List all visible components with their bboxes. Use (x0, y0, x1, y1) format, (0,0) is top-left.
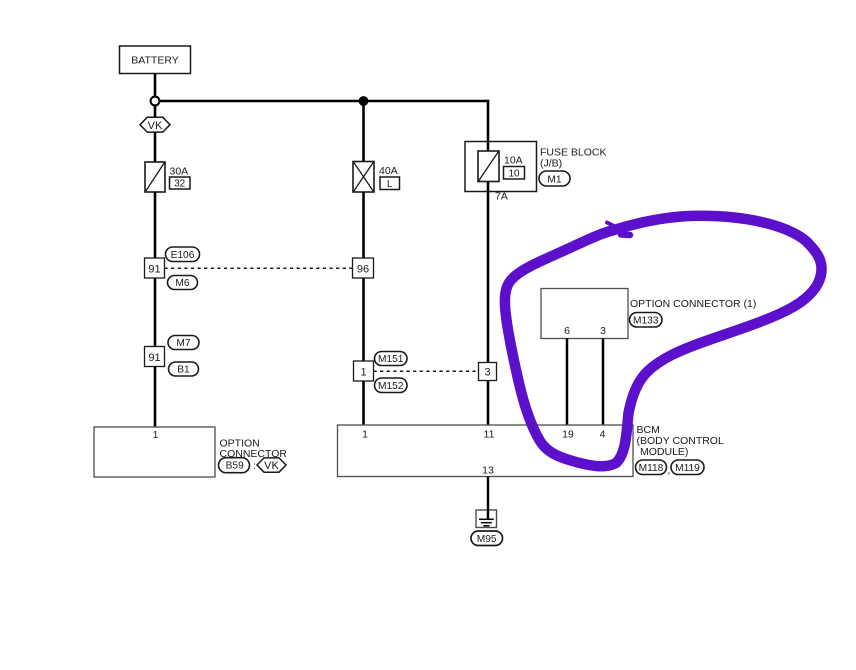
wire fuse30A to connector 91 (E106/M6) (154, 192, 157, 258)
label BCM (BODY CONTROL MODULE) (637, 424, 724, 458)
connector ref M119 (668, 460, 705, 477)
net flag VK (140, 117, 170, 132)
node open-circle junction (151, 97, 160, 106)
svg-text:19: 19 (562, 428, 574, 440)
connector ref M6 (168, 276, 198, 290)
fuse number box 32 (170, 177, 191, 190)
svg-text:E106: E106 (171, 250, 195, 261)
svg-text:M95: M95 (477, 534, 497, 545)
connector ref M7 (168, 336, 199, 350)
fuse block J/B outline (465, 142, 537, 192)
svg-text:4: 4 (600, 428, 606, 440)
svg-text:91: 91 (148, 263, 160, 275)
connector ref M95 (471, 531, 503, 546)
svg-text:11: 11 (484, 428, 495, 440)
svg-text:BATTERY: BATTERY (131, 55, 178, 67)
wire battery to junction (154, 74, 157, 97)
connector ref B59 (219, 458, 256, 473)
fusible link 40A (353, 162, 398, 193)
battery B1 (120, 46, 191, 74)
connector ref M1 (539, 171, 570, 186)
ground M95 (476, 509, 497, 528)
label FUSE BLOCK (J/B) (540, 147, 607, 170)
wire VK to fuse 30A (154, 132, 157, 162)
svg-text:B59: B59 (226, 461, 244, 472)
svg-text:1: 1 (360, 366, 366, 378)
svg-text:OPTION CONNECTOR (1): OPTION CONNECTOR (1) (630, 298, 756, 310)
wire 91 to option connector B59 (154, 367, 157, 428)
svg-text:VK: VK (148, 120, 163, 132)
wire BCM pin 13 to ground (487, 477, 489, 520)
connector pin box 91 (M7/B1) (145, 347, 165, 367)
wire 91 to 91 (M7/B1) (154, 278, 157, 347)
svg-text:96: 96 (357, 263, 369, 275)
BCM body control module box (338, 425, 634, 477)
net flag VK (bottom) (257, 458, 286, 472)
wire 40A to 96 (362, 192, 365, 258)
svg-text::: : (253, 461, 256, 472)
svg-text:30A: 30A (170, 166, 189, 178)
svg-text:M6: M6 (175, 278, 189, 289)
wire dashed link 91 to 96 (165, 267, 353, 269)
wire bus to fusible link 40A (362, 101, 365, 162)
svg-text:M133: M133 (633, 316, 659, 327)
svg-text:3: 3 (484, 367, 490, 379)
node solid junction dot (359, 96, 369, 106)
fuse 10A (478, 151, 523, 182)
connector ref E106 (166, 247, 200, 262)
wire horizontal bus (160, 100, 489, 103)
connector ref M118 (636, 460, 667, 475)
wire junction to VK flag (154, 105, 157, 118)
svg-text:32: 32 (174, 179, 186, 190)
svg-text:,: , (668, 466, 671, 477)
wire M133 pin 6 to BCM pin 19 (566, 339, 569, 426)
annotation purple highlight loop (505, 216, 822, 466)
wire 3 box to BCM pin 11 (487, 381, 490, 426)
connector ref B1 (169, 362, 199, 376)
connector pin box 3 (479, 363, 497, 381)
wire fuse block to 3 box (487, 192, 490, 363)
fuse number box L (380, 177, 400, 190)
wire pin1 box to BCM (362, 381, 365, 425)
wire through fuse block to fuse (487, 142, 490, 153)
svg-text:MODULE): MODULE) (640, 446, 688, 458)
svg-text:M152: M152 (378, 381, 404, 392)
svg-text:(J/B): (J/B) (540, 158, 562, 170)
wire bus corner down to fuse block (487, 100, 490, 142)
svg-text:M7: M7 (176, 338, 190, 349)
connector pin box 96 (353, 258, 374, 278)
svg-text:1: 1 (362, 428, 368, 440)
connector ref M151 (375, 352, 408, 366)
wire M133 pin 3 to BCM pin 4 (602, 339, 605, 426)
connector ref M133 (630, 313, 663, 328)
svg-text:7A: 7A (495, 191, 508, 203)
wire 96 to pin 1 box (362, 278, 365, 361)
svg-text:M118: M118 (639, 463, 664, 474)
wire fuse to fuse block bottom (487, 181, 490, 192)
svg-text:B1: B1 (177, 365, 190, 376)
option connector B59 box (94, 427, 215, 477)
connector pin box 91 (E106/M6) (145, 258, 165, 278)
annotation pen start tick (607, 223, 616, 228)
connector ref M152 (375, 378, 408, 393)
svg-text:M119: M119 (675, 463, 700, 474)
fuse number box 10 (504, 167, 525, 180)
svg-text:40A: 40A (379, 165, 398, 177)
svg-text:M1: M1 (547, 174, 561, 185)
svg-text:6: 6 (564, 325, 570, 337)
svg-text:3: 3 (600, 325, 606, 337)
svg-text:M151: M151 (378, 354, 404, 365)
svg-text:VK: VK (264, 460, 279, 472)
svg-text:10A: 10A (504, 155, 523, 167)
label OPTION CONNECTOR (220, 438, 288, 461)
svg-text:L: L (387, 179, 393, 190)
wire dashed link 1 to 3 (374, 370, 479, 372)
fuse 30A (145, 162, 188, 192)
svg-text:91: 91 (148, 352, 160, 364)
svg-text:10: 10 (508, 169, 520, 180)
svg-text:1: 1 (153, 430, 159, 441)
svg-text:13: 13 (482, 464, 494, 476)
option connector (1) M133 box (541, 289, 628, 339)
connector pin box 1 (M151/M152) (354, 361, 374, 381)
